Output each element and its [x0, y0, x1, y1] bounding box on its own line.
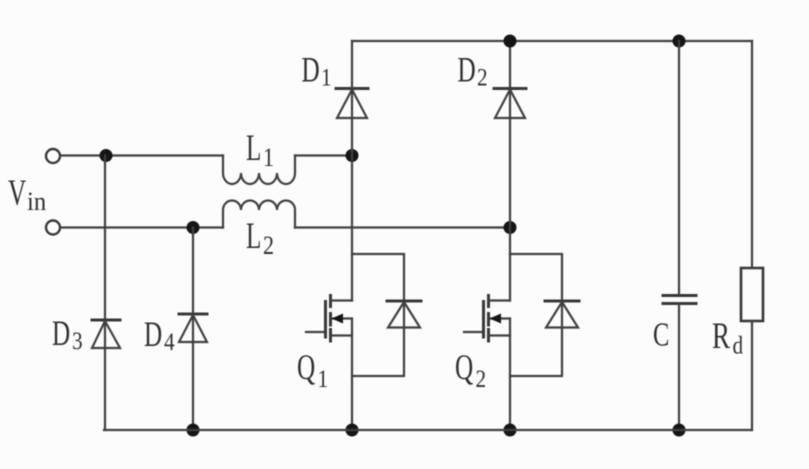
transistor Q2 (MOSFET) — [464, 296, 510, 342]
label D4 — [144, 314, 175, 357]
svg-text:D: D — [52, 313, 70, 354]
svg-text:2: 2 — [476, 365, 487, 393]
wire Q1 body-diode loop bottom — [352, 301, 404, 376]
diode D1 — [336, 89, 368, 119]
transistor Q1 (MOSFET) — [306, 296, 352, 342]
svg-text:4: 4 — [164, 328, 175, 356]
svg-text:1: 1 — [318, 365, 329, 393]
node B (L2/D2/Q2) — [504, 221, 517, 234]
label D2 — [458, 49, 488, 92]
label D3 — [52, 313, 83, 356]
svg-text:R: R — [712, 316, 730, 357]
node junction bottom input — [187, 221, 200, 234]
wire top rail to capacitor — [678, 41, 680, 294]
diode D4 — [179, 314, 207, 342]
wire bottom input to L2 — [61, 226, 224, 228]
node Q2 bottom rail — [504, 424, 517, 437]
svg-text:L: L — [246, 215, 261, 256]
label C — [653, 317, 669, 354]
wire Q2 body-diode loop top — [510, 254, 562, 301]
wire Q2 source to bottom rail — [509, 319, 511, 431]
svg-text:D: D — [302, 49, 320, 90]
svg-text:3: 3 — [72, 327, 83, 355]
top rail — [352, 40, 752, 42]
diode D2 — [494, 89, 526, 119]
label Vin — [8, 172, 47, 216]
body diode of Q2 — [545, 301, 579, 328]
svg-text:d: d — [733, 332, 744, 360]
label L2 — [246, 215, 274, 260]
svg-text:Q: Q — [455, 347, 473, 388]
svg-text:1: 1 — [263, 144, 274, 172]
bottom rail — [104, 429, 752, 431]
wire D2 cathode to top rail — [509, 41, 511, 301]
label L1 — [246, 127, 274, 172]
wire top input to L1 — [61, 154, 224, 156]
wire L2 to node B — [295, 226, 510, 228]
svg-text:C: C — [653, 317, 669, 354]
svg-text:2: 2 — [477, 64, 488, 92]
wire D3 branch: top junction down through D3 to bottom rail — [104, 156, 106, 431]
node D4 bottom rail — [187, 424, 200, 437]
wire Q1 source to bottom rail — [351, 319, 353, 431]
wire top rail corner down to resistor Rd — [751, 41, 753, 268]
node A (L1/D1/Q1) — [346, 149, 359, 162]
resistor Rd — [741, 268, 763, 321]
svg-text:in: in — [27, 187, 47, 216]
svg-text:V: V — [8, 172, 26, 213]
svg-text:D: D — [144, 314, 162, 355]
label Q2 — [455, 347, 486, 394]
wire Q2 body-diode loop bottom — [510, 301, 562, 376]
node C bottom rail — [673, 424, 686, 437]
diode D3 — [92, 320, 120, 348]
inductor L1 — [223, 156, 295, 185]
terminal Vin+ — [46, 149, 60, 163]
node top rail / D2 — [504, 35, 517, 48]
node top rail / C — [673, 35, 686, 48]
wire Q1 body-diode loop top — [352, 254, 404, 301]
wire L1 to node A — [295, 154, 352, 156]
terminal Vin- — [46, 221, 60, 235]
body diode of Q1 — [387, 301, 421, 328]
node junction top input — [100, 149, 113, 162]
wire D4 branch: bottom junction down through D4 to bottom rail — [192, 228, 194, 431]
label Rd — [712, 316, 743, 360]
capacitor C — [663, 296, 696, 304]
svg-text:D: D — [458, 49, 476, 90]
node Q1 bottom rail — [346, 424, 359, 437]
svg-text:L: L — [246, 127, 261, 168]
inductor L2 — [223, 201, 295, 228]
svg-text:1: 1 — [321, 64, 332, 92]
wire capacitor to bottom rail — [678, 304, 680, 430]
wire D1 cathode to top rail — [351, 41, 353, 301]
svg-text:Q: Q — [297, 347, 315, 388]
svg-text:2: 2 — [263, 232, 274, 260]
wire resistor Rd to bottom rail — [751, 321, 753, 430]
label D1 — [302, 49, 332, 92]
label Q1 — [297, 347, 328, 394]
